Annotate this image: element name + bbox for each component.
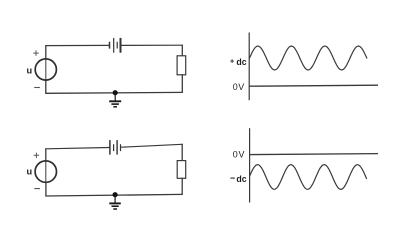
axis vertical (249, 128, 251, 202)
svg-text:dc: dc (236, 174, 246, 184)
wire top horizontal left segment (to battery) (46, 148, 109, 149)
wire right branch lower (181, 178, 183, 194)
ground symbol (109, 195, 121, 209)
junction node (ground tap) (113, 192, 118, 197)
axis 0V horizontal (250, 154, 378, 155)
svg-text:u: u (27, 65, 33, 75)
wire top horizontal right segment (battery to resistor branch) (122, 44, 183, 46)
wire top horizontal left segment (to battery) (46, 44, 109, 46)
wire bottom-left vertical (source bottom lead) (45, 182, 47, 196)
label +dc (230, 57, 247, 67)
AC source U1 (circle, wire passes through) (35, 59, 56, 80)
axis vertical (248, 33, 250, 101)
battery B1 (two cells, + right) (110, 38, 121, 53)
AC source U2 (circle, wire passes through) (35, 161, 56, 182)
wire bottom horizontal (46, 91, 183, 94)
svg-text:u: u (27, 166, 33, 176)
wire right branch upper (181, 45, 183, 56)
resistor R2 (box) (177, 161, 186, 179)
waveform sine (+dc offset) (249, 46, 367, 70)
svg-text:0: 0 (233, 150, 238, 160)
ground symbol (109, 93, 121, 107)
label -dc (230, 174, 246, 184)
wire top-left vertical (source top lead) (45, 149, 47, 161)
svg-text:0: 0 (233, 82, 238, 92)
wire top horizontal right segment (battery to resistor branch) (122, 144, 183, 147)
svg-text:dc: dc (236, 57, 246, 67)
wire bottom-left vertical (source bottom lead) (45, 80, 47, 93)
resistor R1 (box) (177, 56, 186, 75)
axis 0V horizontal (249, 85, 378, 86)
waveform sine (-dc offset) (250, 165, 367, 190)
svg-text:V: V (238, 82, 244, 92)
label - (source polarity) (34, 188, 40, 190)
label + (source polarity) (34, 153, 39, 158)
svg-text:V: V (239, 150, 245, 160)
battery B2 (two cells, + left) (110, 140, 121, 155)
wire right branch upper (181, 144, 183, 160)
wire bottom horizontal (46, 194, 182, 196)
junction node (ground tap) (113, 90, 118, 95)
wire right branch lower (181, 75, 183, 93)
label - (source polarity) (34, 87, 40, 89)
label + (source polarity) (33, 50, 38, 55)
wire top-left vertical (source top lead) (45, 46, 47, 59)
